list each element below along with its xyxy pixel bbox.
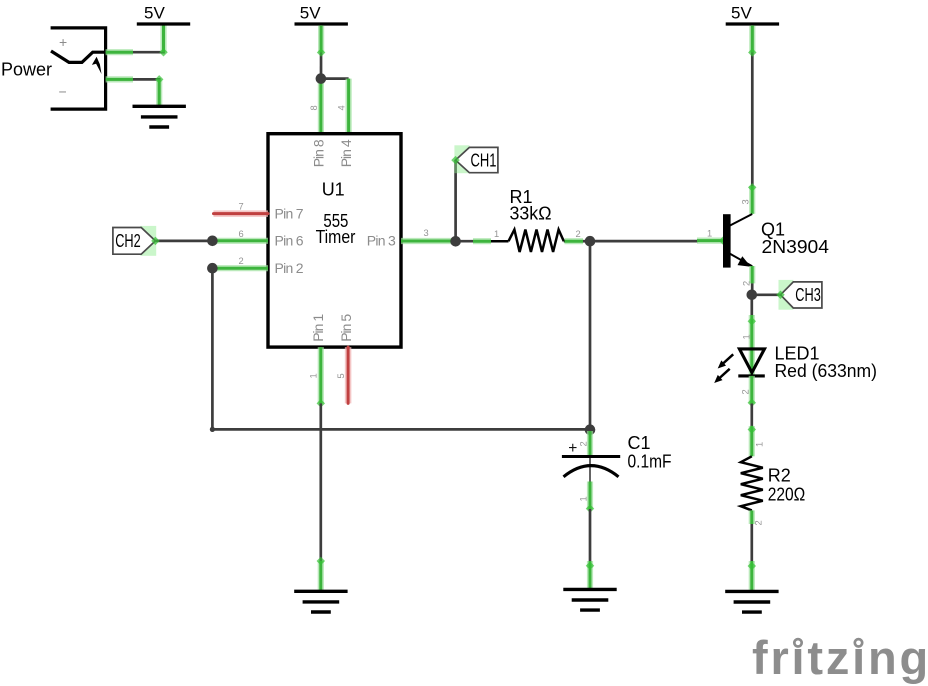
U1 pin 7 lead (unconnected, red) — [214, 202, 269, 214]
wire power- to ground — [106, 75, 164, 106]
fritzing watermark — [752, 631, 928, 684]
svg-text:fritzing: fritzing — [752, 631, 928, 684]
junction dot (pin3/CH1/R1) — [450, 236, 461, 247]
svg-text:8: 8 — [309, 105, 319, 110]
svg-text:1: 1 — [755, 442, 765, 447]
svg-text:7: 7 — [239, 202, 244, 212]
U1 pin 5 lead (unconnected, red) — [336, 347, 348, 403]
U1 pin 2 lead — [212, 256, 268, 268]
wire LED to R2 — [741, 376, 765, 456]
junction dot (CH2/pin6) — [207, 236, 218, 247]
svg-text:33kΩ: 33kΩ — [510, 203, 552, 223]
svg-text:Pin 5: Pin 5 — [338, 314, 354, 342]
svg-text:Red (633nm): Red (633nm) — [775, 361, 878, 381]
U1 pin 8 lead — [309, 79, 321, 134]
junction dot (pin2) — [207, 263, 218, 274]
junction dot (5V / pin8) — [316, 73, 327, 84]
svg-text:Pin 4: Pin 4 — [338, 139, 354, 167]
svg-text:−: − — [59, 84, 67, 100]
ground (bottom-centre under C1) — [563, 589, 616, 610]
capacitor C1 0.1mF — [562, 431, 672, 482]
svg-text:CH1: CH1 — [471, 150, 497, 170]
svg-text:5V: 5V — [300, 4, 321, 23]
svg-text:Timer: Timer — [316, 227, 356, 247]
svg-text:+: + — [59, 34, 67, 50]
wire R2 to ground — [748, 510, 756, 591]
svg-text:1: 1 — [579, 496, 589, 501]
svg-text:R2: R2 — [768, 466, 791, 486]
svg-text:CH3: CH3 — [795, 285, 821, 305]
svg-text:2: 2 — [742, 281, 752, 286]
wire to Q1 base — [590, 229, 727, 245]
wire emitter junction to LED — [741, 295, 756, 375]
U1 555 timer body — [268, 134, 401, 347]
U1 pin 6 lead — [212, 229, 268, 241]
svg-text:1: 1 — [494, 229, 499, 239]
svg-text:3: 3 — [424, 228, 429, 238]
svg-text:Pin 1: Pin 1 — [310, 314, 326, 342]
svg-text:Power: Power — [1, 60, 52, 80]
svg-text:2: 2 — [579, 441, 589, 446]
svg-text:Pin 3: Pin 3 — [367, 233, 396, 249]
svg-text:1: 1 — [707, 229, 712, 239]
svg-text:3: 3 — [740, 199, 750, 204]
svg-text:Pin 2: Pin 2 — [275, 260, 304, 276]
svg-text:U1: U1 — [322, 180, 345, 200]
svg-text:CH2: CH2 — [115, 231, 141, 251]
svg-text:0.1mF: 0.1mF — [628, 452, 672, 472]
svg-text:Pin 8: Pin 8 — [310, 139, 326, 167]
svg-text:5V: 5V — [144, 4, 165, 23]
U1 pin 1 lead — [309, 347, 326, 408]
wire C1 to ground — [579, 482, 595, 590]
5V rail (top-middle) — [295, 4, 348, 25]
wire pin2 junction down and across to C1 — [210, 268, 590, 432]
junction dot (C1 top) — [585, 424, 596, 435]
svg-text:1: 1 — [309, 373, 319, 378]
transistor Q1 2N3904 — [723, 183, 829, 295]
ground (top-left) — [133, 106, 186, 127]
5V rail (top-left) — [137, 4, 190, 25]
wire R1 junction down to C1 junction — [589, 241, 592, 429]
resistor R1 33k — [456, 187, 590, 252]
svg-text:4: 4 — [337, 105, 347, 110]
svg-text:1: 1 — [741, 334, 751, 339]
junction dot (R1/Q1 base/C1) — [585, 236, 596, 247]
svg-text:Pin 6: Pin 6 — [275, 233, 304, 249]
svg-text:Pin 7: Pin 7 — [275, 205, 304, 221]
probe flag CH1 with stem wire — [451, 145, 498, 242]
svg-text:6: 6 — [239, 229, 244, 239]
junction dot (emitter/CH3/LED) — [747, 290, 758, 301]
wire 5V down to Q1 collector — [748, 25, 756, 187]
ground (bottom-middle under pin1) — [294, 591, 347, 612]
svg-text:2: 2 — [754, 520, 764, 525]
svg-text:+: + — [568, 440, 577, 457]
svg-text:5: 5 — [336, 373, 346, 378]
svg-text:220Ω: 220Ω — [768, 485, 806, 505]
wire power+ to 5V rail — [106, 24, 168, 56]
svg-text:5V: 5V — [731, 4, 752, 23]
svg-text:2N3904: 2N3904 — [762, 237, 830, 257]
resistor R2 220 — [741, 456, 806, 525]
power symbol J1 — [1, 28, 106, 109]
ground (bottom-right) — [725, 591, 778, 612]
U1 pin 3 lead — [401, 228, 456, 241]
probe flag CH2 — [113, 226, 212, 256]
svg-text:2: 2 — [741, 389, 751, 394]
svg-text:2: 2 — [239, 256, 244, 266]
5V rail (top-right) — [726, 4, 779, 25]
svg-text:C1: C1 — [628, 433, 651, 453]
LED1 — [714, 344, 877, 384]
wire 5V to U1 pins 8/4 — [317, 25, 349, 79]
U1 pin 4 lead — [337, 79, 349, 134]
wire pin1 down to ground — [317, 403, 325, 591]
svg-text:2: 2 — [576, 229, 581, 239]
probe flag CH3 — [752, 280, 822, 310]
